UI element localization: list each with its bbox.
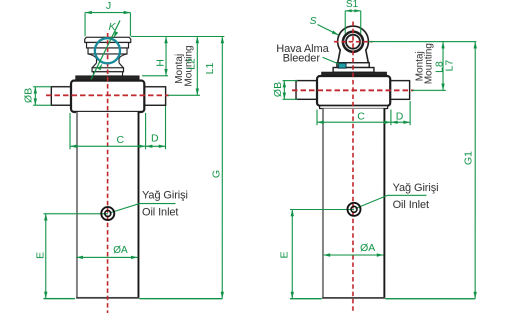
- svg-text:Mounting: Mounting: [423, 43, 434, 84]
- dimension L7 G1 shared line: [474, 42, 476, 299]
- oil inlet extension right: [290, 209, 354, 211]
- ball socket cap band3: [88, 48, 127, 54]
- svg-text:K: K: [109, 21, 117, 33]
- dimension L1 G shared line: [221, 36, 223, 298]
- dimension D right: [409, 101, 411, 125]
- svg-text:J: J: [106, 0, 111, 12]
- svg-text:D: D: [151, 132, 159, 144]
- dimension L8: [442, 42, 444, 91]
- oil inlet leader: [109, 204, 175, 213]
- ball stem flare: [92, 63, 123, 68]
- svg-text:E: E: [279, 252, 291, 259]
- svg-text:H: H: [155, 59, 167, 67]
- barrel right bottom edge: [322, 297, 385, 299]
- svg-text:L1: L1: [204, 62, 216, 74]
- centerline vertical left cylinder: [107, 33, 109, 313]
- svg-text:S: S: [310, 15, 317, 27]
- bottom extension right: [290, 298, 322, 300]
- ball stem base disc: [92, 68, 124, 72]
- barrel right wall: [137, 112, 139, 298]
- centerline horizontal right trunnion: [292, 89, 414, 91]
- bleeder valve: [338, 63, 346, 68]
- centerline vertical right cylinder: [352, 22, 354, 314]
- svg-text:L7: L7: [444, 60, 456, 72]
- barrel left wall: [76, 112, 78, 298]
- rod eye outer clevis: [338, 26, 369, 63]
- svg-text:ØB: ØB: [272, 82, 284, 97]
- centerline horizontal eye: [334, 41, 373, 43]
- dimension E right: [291, 210, 293, 299]
- svg-text:C: C: [357, 111, 365, 123]
- trunnion pin right: [144, 87, 165, 106]
- dimension OA right: [323, 254, 383, 256]
- dimension C right: [316, 110, 318, 126]
- dimension J: [85, 13, 130, 37]
- svg-text:D: D: [396, 111, 404, 123]
- svg-text:E: E: [34, 252, 46, 259]
- oil inlet port: [101, 207, 114, 220]
- dimension S1: [345, 11, 361, 34]
- dimension E: [45, 214, 47, 299]
- oil inlet leader right: [355, 195, 426, 208]
- ball stem lower plate: [94, 72, 123, 76]
- oil inlet extension: [43, 213, 108, 215]
- dimension H: [165, 36, 167, 75]
- top extension line: [131, 35, 224, 37]
- centerline horizontal left trunnion: [46, 94, 169, 96]
- collar body: [71, 81, 144, 112]
- collar body right: [317, 76, 390, 106]
- svg-text:ØA: ØA: [360, 242, 375, 254]
- head top plate right: [322, 72, 387, 76]
- oil inlet port right: [347, 203, 360, 216]
- svg-text:G1: G1: [463, 151, 475, 165]
- ball socket cap band1: [85, 37, 131, 42]
- ball circle teal: [95, 38, 120, 63]
- svg-text:Oil Inlet: Oil Inlet: [142, 206, 178, 218]
- collar bottom plate right: [320, 106, 388, 109]
- label S leader: [318, 25, 339, 36]
- svg-text:ØB: ØB: [23, 88, 35, 103]
- extension line L2 bottom: [168, 94, 200, 96]
- dimension C: [69, 113, 71, 149]
- svg-text:Oil Inlet: Oil Inlet: [393, 199, 429, 211]
- dimension L2: [196, 36, 198, 95]
- extension line H bottom: [142, 75, 168, 77]
- svg-text:Yağ Girişi: Yağ Girişi: [142, 189, 188, 201]
- rod eye bore: [346, 35, 360, 49]
- ball socket shoulder curves: [88, 54, 127, 59]
- bottom extension line: [43, 298, 74, 300]
- dimension OB right: [283, 80, 298, 82]
- svg-text:C: C: [117, 134, 125, 146]
- svg-text:Yağ Girişi: Yağ Girişi: [393, 182, 439, 194]
- trunnion pin left right-drawing: [296, 81, 317, 100]
- trunnion pin right right-drawing: [390, 81, 409, 100]
- eye stem base: [337, 63, 369, 68]
- head top plate: [76, 76, 139, 81]
- dimension OB left: [33, 86, 51, 88]
- ball socket cap band2: [87, 42, 129, 48]
- svg-text:S1: S1: [346, 0, 359, 10]
- svg-text:ØA: ØA: [113, 245, 128, 256]
- top extension right: [369, 41, 477, 43]
- dimension OA: [76, 256, 138, 258]
- svg-text:Bleeder: Bleeder: [283, 53, 321, 65]
- barrel right: [322, 109, 385, 299]
- svg-text:G: G: [211, 170, 223, 178]
- head band2: [333, 68, 374, 73]
- bleeder leader: [323, 57, 340, 64]
- barrel: [76, 112, 139, 298]
- ball stem neck: [97, 58, 120, 63]
- dimension K diagonal: [91, 20, 120, 79]
- barrel bottom edge: [76, 297, 139, 299]
- rod eye bearing ring: [343, 32, 363, 52]
- extension L8 bottom: [412, 89, 446, 91]
- dimension D: [165, 106, 167, 149]
- svg-text:L2: L2: [186, 58, 198, 70]
- barrel right right wall: [383, 109, 385, 299]
- trunnion pin left: [51, 87, 71, 106]
- barrel right left wall: [322, 109, 324, 299]
